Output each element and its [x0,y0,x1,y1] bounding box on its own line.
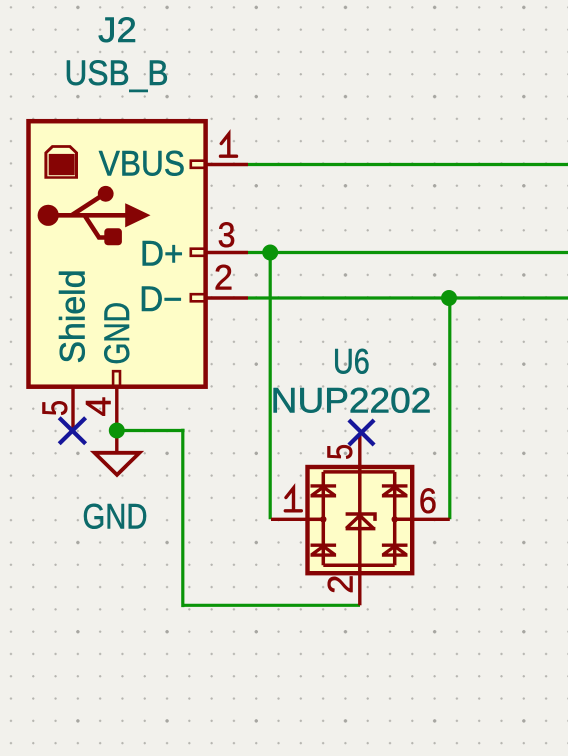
U6 inner junction dot left [320,516,326,522]
svg-text:U6: U6 [333,342,370,381]
U6 inner right rail [393,472,397,565]
U6 diode top-right [382,486,408,496]
wire GND net horizontal from junction [117,429,185,432]
wire D+ branch down to U6 pin 1 [269,253,272,520]
U6 pin 1 line [271,518,308,521]
J2 pin 4 marker [113,371,120,386]
U6 center zener diode [346,514,376,529]
J2 pin 2 D- line [207,296,248,299]
USB plug icon inner face [47,148,75,176]
USB trident arrow head [125,203,150,227]
J2 pin 4 GND line [115,387,118,431]
svg-text:D+: D+ [140,235,183,274]
svg-text:5: 5 [321,444,360,460]
U6 pin 5 line [358,433,361,467]
USB trident lower branch [85,215,107,237]
wire D- branch down to U6 pin 6 [448,298,451,519]
svg-text:2: 2 [321,575,360,594]
no-connect X on U6 pin 5 [349,420,374,445]
svg-text:Shield: Shield [54,270,93,364]
pin number 1 (U6) [285,488,301,511]
USB trident upper circle [98,186,114,202]
svg-text:VBUS: VBUS [99,145,185,184]
USB plug icon outline [44,145,78,179]
connector J2 body box [29,121,206,387]
U6 inner center rail [358,467,362,573]
GND symbol triangle [95,453,140,475]
U6 inner junction dot right [392,516,398,522]
U6 inner top rail [323,470,394,474]
svg-text:GND: GND [98,302,137,365]
GND symbol stem [115,431,118,453]
USB trident shaft [50,213,127,218]
U6 diode bottom-left [311,545,337,555]
svg-text:USB_B: USB_B [65,54,169,93]
junction dot on D+ wire [262,245,278,261]
U6 inner bottom rail [323,564,394,568]
svg-text:NUP2202: NUP2202 [271,382,432,421]
U6 pin 2 line [358,573,361,605]
USB trident root circle [38,205,59,226]
J2 pin 1 marker [191,161,206,168]
svg-text:5: 5 [36,400,75,416]
USB trident upper branch [72,197,101,216]
U6 diode top-left [311,486,337,496]
wire D- net [248,296,568,299]
U6 inner stub right rail to pin6 [395,518,413,522]
svg-text:J2: J2 [98,11,137,50]
svg-text:GND: GND [83,498,148,537]
junction dot on D- wire [441,290,457,306]
junction dot on GND pin 4 [109,423,125,439]
J2 pin 3 marker [191,249,206,256]
svg-text:D−: D− [139,280,182,319]
svg-text:2: 2 [214,259,233,298]
wire D+ net [248,251,568,254]
wire VBUS net [248,163,568,166]
USB trident square terminal [104,228,122,245]
J2 pin 5 Shield line [71,387,74,430]
svg-text:4: 4 [80,397,119,417]
U6 diode bottom-right [382,545,408,555]
J2 pin 1 VBUS line [207,163,248,166]
pin number 1 (J2) [221,134,237,156]
U6 pin 6 line [412,518,450,521]
svg-text:3: 3 [218,216,236,255]
USB plug icon inner pad [49,154,75,175]
wire GND net vertical [181,429,184,607]
svg-text:6: 6 [419,482,437,521]
wire GND net bottom horizontal to U6 pin 2 [183,604,360,607]
J2 pin 2 marker [191,294,206,301]
U6 inner stub pin1 to left rail [308,518,324,522]
U6 inner left rail [322,472,326,565]
J2 pin 3 D+ line [207,251,248,254]
U6 body box [308,467,413,573]
no-connect X on J2 pin 5 [59,418,85,444]
